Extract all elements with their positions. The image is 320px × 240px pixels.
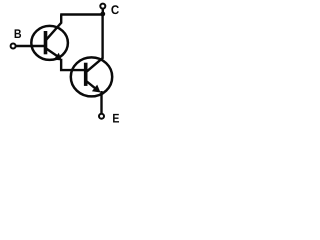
terminal E (open circle) xyxy=(99,114,104,119)
wire Q2 emitter down to E xyxy=(100,91,102,113)
label B xyxy=(15,29,21,38)
terminal B (open circle) xyxy=(11,44,16,49)
label E xyxy=(113,114,119,123)
wire C stub xyxy=(102,9,104,14)
transistor Q1 emitter arrowhead xyxy=(54,53,62,61)
terminal C (open circle) xyxy=(100,4,105,9)
transistor Q2 base bar xyxy=(84,63,88,86)
junction node C dot xyxy=(100,12,105,17)
transistor Q1 base bar xyxy=(44,31,48,54)
wire Q1 emitter to Q2 base xyxy=(61,59,86,70)
wire B to Q1 base xyxy=(16,45,45,47)
transistor Q2 collector stroke + wire up to node C xyxy=(86,14,102,72)
wire top rail to node C xyxy=(60,13,103,15)
transistor Q1 collector stroke + wire up to rail xyxy=(46,15,61,41)
transistor Q2 emitter arrowhead xyxy=(92,85,101,93)
transistor Q2 emitter stroke xyxy=(86,81,96,89)
transistor Q1 emitter stroke xyxy=(46,48,58,56)
transistor Q1 body circle xyxy=(31,26,68,60)
transistor Q2 body circle xyxy=(71,57,112,96)
label C xyxy=(111,5,119,14)
